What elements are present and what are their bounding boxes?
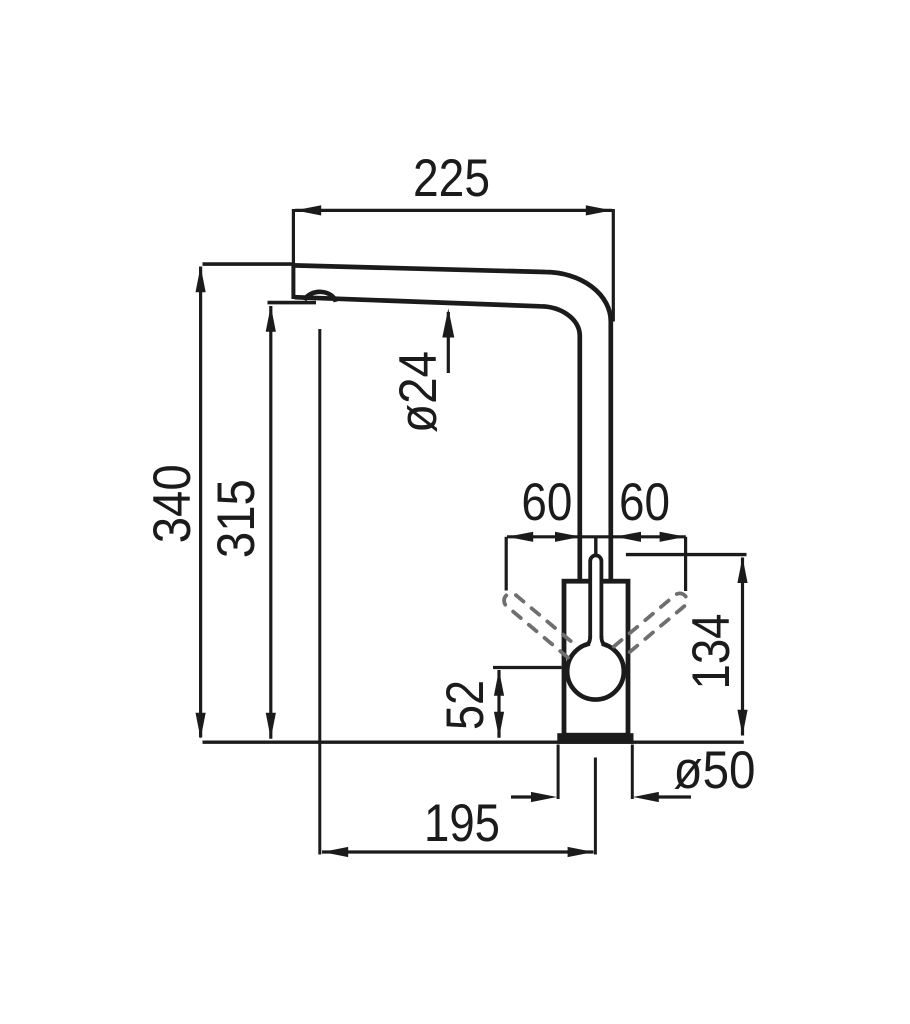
dimension 60 extension line right xyxy=(684,537,687,591)
diameter 50 extension line left xyxy=(557,745,560,800)
diameter 50 extension line right xyxy=(631,745,634,800)
lever capsule outline xyxy=(590,555,601,638)
dimension 225 line xyxy=(295,209,612,212)
dimension 315 extension line top xyxy=(268,301,317,305)
svg-text:60: 60 xyxy=(521,473,572,532)
dashed handle swung right xyxy=(614,590,690,657)
diameter 50 right arrow xyxy=(656,795,691,798)
handle ball joint xyxy=(567,643,624,700)
svg-text:134: 134 xyxy=(682,614,741,690)
svg-text:ø50: ø50 xyxy=(674,741,756,800)
dimension 60 extension line left xyxy=(505,537,508,591)
svg-text:315: 315 xyxy=(207,479,266,558)
dimension diameter 24 arrow xyxy=(447,312,450,373)
svg-text:195: 195 xyxy=(424,794,500,853)
lever capsule fill xyxy=(590,555,601,653)
dimension 340 line xyxy=(199,267,202,738)
dimension 315 line xyxy=(269,306,272,739)
dimension 52 line xyxy=(497,670,500,738)
dimension 195 extension line left xyxy=(318,329,321,855)
dimension 340 extension line top xyxy=(203,262,294,266)
svg-text:52: 52 xyxy=(436,680,495,730)
lever capsule left flare xyxy=(584,636,591,646)
diameter 50 left arrow xyxy=(511,795,534,798)
spout top edge, outer corner and pipe right wall xyxy=(293,265,610,581)
svg-text:340: 340 xyxy=(143,464,202,543)
body outline xyxy=(564,581,628,735)
svg-text:60: 60 xyxy=(619,473,670,532)
lever rod xyxy=(594,536,597,557)
dimension 225 extension line left xyxy=(292,209,295,264)
dimension 60 60 line xyxy=(507,535,686,538)
svg-text:ø24: ø24 xyxy=(389,351,448,433)
dimension 52 extension line top xyxy=(493,666,562,669)
dimension 134 line xyxy=(741,558,744,736)
dimension 225 extension line right xyxy=(612,209,615,322)
countertop line xyxy=(203,741,744,744)
dimension 195 extension line right xyxy=(594,758,597,855)
dashed handle swung left xyxy=(501,590,577,657)
dimension 134 extension line top xyxy=(626,553,747,556)
svg-text:225: 225 xyxy=(413,149,490,208)
dimension 195 line xyxy=(322,850,594,853)
aerator bump xyxy=(305,292,336,302)
spout tip face xyxy=(291,263,295,299)
lever capsule right flare xyxy=(601,636,608,646)
spout bottom edge, inner corner and pipe left wall xyxy=(295,297,580,581)
base flange xyxy=(557,733,633,744)
